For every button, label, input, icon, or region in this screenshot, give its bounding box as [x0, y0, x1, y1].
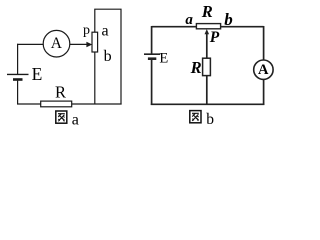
svg-text:E: E: [32, 64, 43, 84]
svg-text:b: b: [104, 48, 112, 65]
wire: pot top terminal a loop, up across and down right side: [95, 9, 121, 104]
potentiometer box R (fig b, horizontal): [196, 24, 220, 29]
wire: top right from pot box to corner: [221, 26, 264, 28]
wire: top horizontal to ammeter: [17, 43, 43, 45]
svg-text:R: R: [55, 82, 66, 101]
svg-text:R: R: [201, 2, 213, 21]
wire: left vertical lower segment (battery to bottom): [17, 81, 19, 105]
wire: bottom horizontal left of R: [17, 103, 41, 105]
svg-text:E: E: [159, 50, 168, 66]
wire: right vertical lower (ammeter to bottom): [263, 80, 265, 105]
wire: left vertical upper (corner to battery): [151, 26, 153, 54]
wire: bottom horizontal right of R: [72, 103, 122, 105]
svg-text:R: R: [190, 58, 202, 77]
caption 图 glyph (fig a): [56, 111, 67, 123]
wire: bottom horizontal: [151, 103, 265, 105]
ammeter A (fig a): [43, 30, 70, 57]
potentiometer box (fig a): [92, 32, 98, 52]
svg-text:a: a: [102, 23, 109, 40]
resistor R box (fig b, vertical): [203, 58, 211, 75]
svg-text:a: a: [185, 12, 193, 28]
wire: right vertical upper (corner to ammeter): [263, 26, 265, 60]
svg-text:b: b: [224, 10, 233, 29]
wire: below resistor R to bottom wire: [206, 76, 208, 105]
wire: ammeter to wiper arrow: [70, 43, 88, 45]
resistor R box (fig a): [41, 101, 72, 107]
svg-text:a: a: [72, 112, 79, 129]
svg-text:P: P: [210, 29, 220, 46]
battery E (fig b): [144, 54, 160, 60]
svg-text:A: A: [51, 35, 63, 52]
wire: left vertical upper segment (to battery): [17, 44, 19, 74]
wiper arrow p (fig a): [86, 42, 92, 48]
wire: top left from corner to pot box: [152, 26, 197, 28]
svg-text:p: p: [83, 23, 90, 38]
svg-text:A: A: [258, 62, 269, 78]
svg-text:b: b: [206, 111, 214, 128]
battery E (fig a): [7, 74, 29, 80]
wiper arrow P (fig b, pointing up): [205, 29, 210, 34]
wire: wiper stem down to resistor R: [206, 33, 208, 59]
ammeter A (fig b): [254, 60, 273, 79]
wire: left vertical lower (battery to bottom): [151, 60, 153, 105]
wire: pot bottom terminal b down to bottom wire: [94, 52, 96, 104]
caption 图 glyph (fig b): [190, 111, 201, 123]
